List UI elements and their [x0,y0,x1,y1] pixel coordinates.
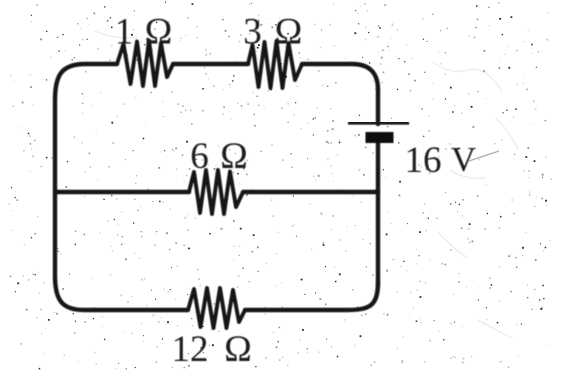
resistor R1 1 ohm zigzag [117,41,173,87]
wire R4 to bottom-left corner and up lower left wall [55,192,188,310]
wire bottom-right corner to R4 [245,282,378,310]
svg-text:Ω: Ω [145,12,173,53]
wire from battery - terminal down right wall [376,142,380,284]
svg-text:6: 6 [190,136,209,177]
svg-text:16: 16 [405,140,442,181]
wire: upper left wall, top-left corner, top run to R1 [55,64,117,192]
svg-text:1: 1 [115,12,134,53]
battery positive plate (long thin) [348,121,409,124]
resistor R4 12 ohm zigzag [188,288,245,328]
svg-text:3: 3 [243,12,262,53]
svg-text:Ω: Ω [220,136,248,177]
wire from R2 over top-right corner down to battery + terminal [302,64,378,124]
resistor R2 3 ohm zigzag [248,41,302,88]
resistor R3 6 ohm zigzag [189,170,243,214]
battery negative plate (short thick) [366,132,394,143]
wire middle branch right of R3 to right wall [243,190,378,194]
wire middle branch left of R3 [55,190,189,194]
pencil mark right of 16 V [469,151,499,161]
svg-text:12: 12 [172,329,209,370]
svg-text:Ω: Ω [275,12,303,53]
wire between R1 and R2 [173,62,248,66]
photocopier smudge streaks [95,31,518,338]
svg-text:Ω: Ω [224,329,252,370]
